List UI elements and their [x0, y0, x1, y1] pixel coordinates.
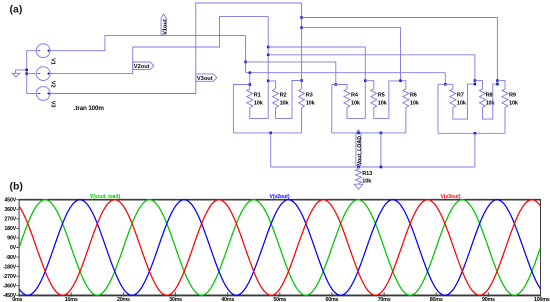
wire R1 bottom U [250, 108, 268, 119]
wire rail V2a to bank2 [268, 46, 365, 48]
resistor R13 10k [356, 169, 362, 184]
svg-text:R9: R9 [509, 92, 516, 98]
junction R1 column top [249, 71, 252, 74]
svg-text:360V: 360V [4, 207, 16, 213]
node Vout_LOAD wire [358, 167, 360, 169]
wire R7 bottom U [453, 84, 475, 119]
x axis ticks and labels [19, 292, 540, 296]
junction bank2 neutral tap [380, 132, 383, 135]
svg-text:.tran 100m: .tran 100m [74, 105, 105, 112]
wire R6 bottom lead [405, 108, 407, 133]
junction V2 rail-b start [267, 54, 270, 57]
wire rail V1a to bank2 [246, 62, 336, 85]
svg-text:10k: 10k [280, 101, 290, 107]
resistor R6 10k [403, 89, 409, 108]
wire V2 drop column [267, 16, 269, 118]
ground (left) [12, 73, 20, 77]
wire V1 left lead [27, 50, 37, 52]
resistor R9 10k [502, 89, 508, 108]
wire V3 output run [50, 3, 302, 94]
wire rail V3a to bank3 [302, 18, 498, 85]
svg-text:-90V: -90V [6, 255, 17, 261]
wire bank2 bottom rail [332, 132, 406, 134]
wire R4 bottom U [347, 108, 365, 119]
svg-text:20ms: 20ms [117, 297, 130, 302]
svg-text:10k: 10k [306, 101, 316, 107]
ground (load) [354, 184, 363, 189]
svg-text:10k: 10k [351, 101, 361, 107]
junction R13 bus tap [357, 166, 360, 169]
junction R8 lower tap [474, 83, 477, 86]
junction V3 rail-b start [300, 26, 303, 29]
wire bank1 neutral drop [270, 133, 272, 167]
svg-text:70ms: 70ms [378, 297, 391, 302]
trace V(v3out) red sine [19, 200, 540, 296]
svg-text:-360V: -360V [3, 283, 17, 289]
junction bank1 neutral tap [269, 132, 272, 135]
wire ground stub [16, 70, 27, 73]
wire V3 drop column [301, 3, 303, 89]
svg-text:100ms: 100ms [534, 297, 550, 302]
svg-text:180V: 180V [4, 226, 16, 232]
junction bank2 bus tap [380, 166, 383, 169]
junction R7 top tap [444, 83, 447, 86]
svg-text:90V: 90V [7, 236, 16, 242]
wire R4 top jog [332, 85, 347, 89]
resistor R7 10k [450, 89, 456, 108]
wire source left bus [26, 51, 28, 94]
junction R1 top tap [249, 83, 252, 86]
svg-text:R6: R6 [410, 92, 417, 98]
svg-text:(b): (b) [10, 181, 23, 193]
wire R2 top elbow [268, 81, 275, 89]
net flag Vout_LOAD [356, 130, 361, 166]
wire V1 output run [50, 36, 246, 51]
svg-text:30ms: 30ms [169, 297, 182, 302]
svg-text:10k: 10k [362, 179, 372, 185]
wire V1 drop to bank1 [245, 36, 247, 73]
resistor R3 10k [299, 89, 305, 108]
svg-text:50ms: 50ms [273, 297, 286, 302]
wire R6 top elbow [401, 81, 406, 89]
svg-text:10ms: 10ms [65, 297, 78, 302]
junction flag tap [357, 132, 360, 135]
trace V(vout_load) green sine [19, 200, 540, 296]
svg-text:10k: 10k [378, 101, 388, 107]
svg-text:0V: 0V [10, 245, 17, 251]
svg-text:V(v2out): V(v2out) [270, 194, 290, 200]
resistor R8 10k [480, 89, 486, 108]
junction R3 feed [300, 79, 303, 82]
chart frame [19, 200, 540, 296]
net flag V2out [133, 62, 154, 69]
svg-text:80ms: 80ms [430, 297, 443, 302]
trace V(v2out) blue sine [19, 200, 540, 296]
svg-text:R2: R2 [280, 92, 287, 98]
svg-text:10k: 10k [486, 101, 496, 107]
svg-text:10k: 10k [254, 101, 264, 107]
svg-text:R1: R1 [254, 92, 261, 98]
junction R5 feed [364, 79, 367, 82]
y axis ticks and labels [16, 200, 19, 296]
net flag V3out [196, 74, 217, 81]
wire V2 left lead [27, 73, 37, 75]
wire R7 feed drop [444, 73, 446, 85]
resistor R2 10k [273, 89, 279, 108]
svg-text:R3: R3 [306, 92, 313, 98]
svg-text:(a): (a) [10, 4, 23, 16]
svg-text:Vout_LOAD: Vout_LOAD [357, 136, 363, 165]
junction R9 feed [496, 79, 499, 82]
net flag V1out [161, 14, 166, 35]
wire bank2 left loop [331, 85, 333, 133]
wire R8 bottom U [483, 84, 498, 119]
svg-text:R13: R13 [362, 171, 372, 177]
svg-text:-270V: -270V [3, 274, 17, 280]
junction R8 feed [474, 79, 477, 82]
wire bank3 bottom rail [438, 132, 505, 134]
svg-text:10k: 10k [457, 101, 467, 107]
resistor R1 10k [247, 89, 253, 108]
wire bank1 bottom rail [233, 132, 301, 134]
wire bank3 neutral drop [474, 133, 476, 167]
svg-text:60ms: 60ms [326, 297, 339, 302]
svg-text:V1: V1 [50, 58, 56, 65]
junction V2 tap [25, 72, 28, 75]
wire neutral bus [271, 166, 475, 168]
svg-text:90ms: 90ms [482, 297, 495, 302]
svg-text:-180V: -180V [3, 264, 17, 270]
svg-text:V(vout_load): V(vout_load) [90, 194, 121, 200]
wire bank3 left loop [437, 84, 439, 133]
wire V2 output run [50, 16, 268, 73]
svg-text:V2out: V2out [134, 64, 150, 70]
wire R5 bottom U [374, 81, 401, 119]
junction V2 rail-a start [267, 46, 270, 49]
svg-text:R7: R7 [457, 92, 464, 98]
svg-text:V1out: V1out [162, 19, 168, 35]
wire R9 bottom lead [504, 108, 506, 134]
resistor R4 10k [344, 89, 350, 108]
junction R4 top tap [335, 83, 338, 86]
junction ground tap [25, 69, 28, 72]
wire R2 bottom U [276, 81, 302, 119]
wire bank1 left loop [233, 85, 249, 133]
wire rail V2b to bank3 [268, 55, 475, 84]
svg-text:V3out: V3out [197, 76, 213, 82]
svg-text:10k: 10k [509, 101, 519, 107]
voltage source V1 [36, 44, 50, 58]
wire R7 top jog [438, 84, 453, 89]
svg-text:0ms: 0ms [12, 297, 22, 302]
svg-text:270V: 270V [4, 217, 16, 223]
wire R3 bottom lead [301, 108, 303, 133]
resistor R5 10k [371, 89, 377, 108]
svg-text:V(v3out): V(v3out) [441, 194, 461, 200]
wire bank2 neutral drop [380, 133, 382, 167]
wire rail V3b to bank2 [302, 28, 401, 81]
junction V1 rail-a start [244, 61, 247, 64]
svg-text:R8: R8 [486, 92, 493, 98]
svg-text:10k: 10k [410, 101, 420, 107]
wire R1 column [249, 73, 251, 89]
wire R5 top elbow [365, 81, 374, 89]
wire rail V1b across [246, 72, 446, 74]
svg-text:V2: V2 [50, 81, 56, 88]
svg-text:450V: 450V [4, 197, 16, 203]
wire V3 left lead [27, 93, 37, 95]
voltage source V3 [36, 87, 50, 101]
junction R2 feed [267, 80, 270, 83]
junction R6 feed [399, 79, 402, 82]
wire R9 top elbow [497, 81, 505, 89]
junction R9 lower tap [496, 83, 499, 86]
wire R5 feed column [364, 47, 366, 118]
svg-text:R5: R5 [378, 92, 385, 98]
svg-text:40ms: 40ms [221, 297, 234, 302]
voltage source V2 [36, 67, 50, 81]
svg-text:R4: R4 [351, 92, 359, 98]
wire R8 top elbow [475, 81, 483, 89]
svg-text:V3: V3 [50, 101, 56, 108]
junction bank3 neutral tap [474, 132, 477, 135]
junction V3 rail-a start [300, 16, 303, 19]
